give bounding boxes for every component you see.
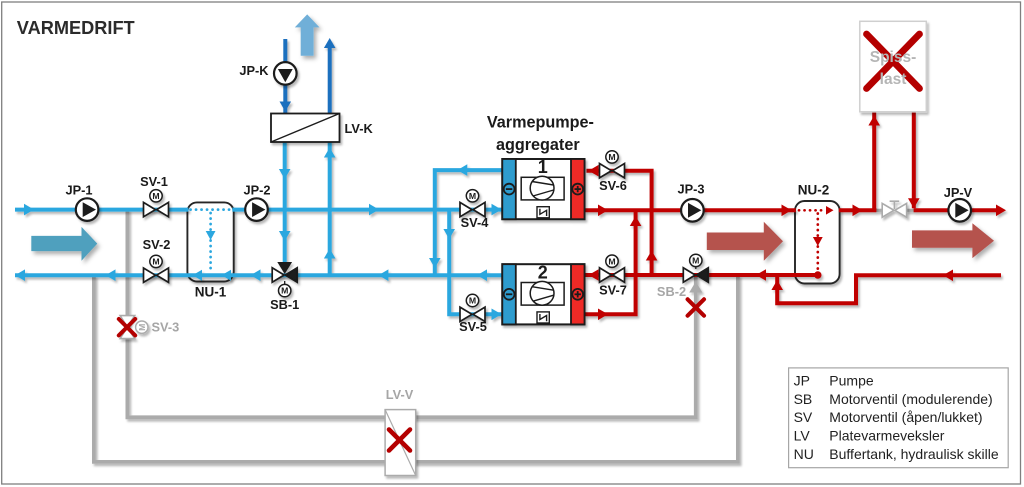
- buffer tank NU-2: [795, 201, 840, 284]
- svg-text:VARMEDRIFT: VARMEDRIFT: [17, 18, 135, 38]
- wire red supply NU-2 to riser junction: [839, 208, 877, 212]
- pump JP-V: [948, 199, 971, 222]
- svg-text:SV-3: SV-3: [152, 320, 180, 335]
- svg-text:2: 2: [538, 262, 548, 282]
- svg-text:LV-K: LV-K: [345, 121, 374, 136]
- valve SV-7: [600, 268, 612, 282]
- svg-text:M: M: [281, 286, 288, 296]
- svg-text:SB-1: SB-1: [270, 297, 299, 312]
- svg-text:M: M: [692, 256, 699, 266]
- wire bottom blue return: [15, 273, 503, 277]
- svg-text:M: M: [152, 257, 159, 267]
- wire grey stubs at manual valve: [876, 209, 883, 212]
- svg-text:NU-2: NU-2: [798, 182, 830, 197]
- wire unit 2 red supply riser: [584, 212, 635, 314]
- svg-text:Platevarmeveksler: Platevarmeveksler: [829, 427, 944, 443]
- valve SV-5: [460, 307, 472, 321]
- svg-text:M: M: [137, 324, 147, 331]
- svg-text:Motorventil (modulerende): Motorventil (modulerende): [829, 391, 992, 407]
- big red flow arrow middle: [707, 222, 783, 261]
- svg-text:M: M: [469, 296, 476, 306]
- svg-text:aggregater: aggregater: [496, 136, 580, 154]
- spiss-last box (inactive): [860, 21, 927, 112]
- X closed SB-2 bottom: [688, 299, 704, 315]
- svg-text:Motorventil (åpen/lukket): Motorventil (åpen/lukket): [829, 409, 982, 425]
- valve SB-1 (3-way): [277, 262, 292, 274]
- wire supply branch down to SV-5 / unit 2: [449, 210, 503, 315]
- big light blue flow arrow up: [295, 14, 320, 55]
- valve SV-2: [144, 268, 156, 282]
- wire red return from right edge with jog: [777, 273, 1001, 303]
- svg-text:Buffertank, hydraulisk skille: Buffertank, hydraulisk skille: [829, 446, 999, 462]
- X closed SV-3: [119, 319, 135, 335]
- buffer tank NU-1: [187, 202, 233, 281]
- grey arrow into SB-2 bottom port: [689, 282, 702, 293]
- X closed LV-V: [389, 430, 410, 451]
- legend box: [789, 368, 1009, 468]
- svg-text:SV: SV: [794, 409, 813, 425]
- svg-text:NU: NU: [794, 446, 814, 462]
- wire SV-6 return into unit 1: [586, 171, 651, 275]
- svg-text:JP-3: JP-3: [677, 181, 704, 196]
- wire LV-K right leg from bottom line: [328, 140, 332, 275]
- svg-text:JP: JP: [794, 373, 810, 389]
- svg-text:1: 1: [538, 157, 548, 177]
- svg-text:NU-1: NU-1: [195, 284, 227, 299]
- pump JP-2: [245, 198, 268, 221]
- NU-2 internal flow dots: [799, 210, 827, 270]
- svg-text:SB-2: SB-2: [657, 284, 686, 299]
- pump JP-3: [681, 199, 704, 222]
- svg-text:LV: LV: [794, 427, 811, 443]
- wire red supply after valve to right edge: [914, 208, 1001, 212]
- svg-text:SV-2: SV-2: [143, 237, 171, 252]
- pump JP-1: [76, 198, 99, 221]
- svg-text:SB: SB: [794, 391, 813, 407]
- valve SV-6: [600, 164, 612, 178]
- svg-text:M: M: [152, 191, 159, 201]
- svg-text:SV-4: SV-4: [461, 215, 490, 230]
- valve SB-2 (3-way): [683, 268, 695, 282]
- heat exchanger LV-K: [271, 114, 340, 143]
- blue arrows inside NU-1 on return line: [193, 270, 203, 281]
- svg-text:Varmepumpe-: Varmepumpe-: [487, 113, 594, 131]
- svg-text:M: M: [469, 191, 476, 201]
- wire spiss-last return down: [912, 113, 916, 209]
- valve SV-1: [144, 202, 156, 216]
- svg-text:Pumpe: Pumpe: [829, 373, 874, 389]
- heat pump unit 1: [502, 159, 584, 219]
- wire dark blue down leg with JP-K: [283, 39, 287, 114]
- wire dark blue up leg: [328, 47, 332, 114]
- wire unit 1 blue return to bottom line: [435, 170, 503, 275]
- svg-text:Spiss-: Spiss-: [870, 49, 917, 66]
- svg-text:JP-V: JP-V: [944, 185, 973, 200]
- svg-text:M: M: [608, 152, 615, 162]
- svg-text:SV-6: SV-6: [599, 178, 627, 193]
- svg-text:JP-2: JP-2: [243, 182, 270, 197]
- pump JP-K: [274, 62, 297, 85]
- wire top blue supply left segment: [15, 208, 189, 212]
- valve SV-3 (inactive, vertical): [120, 316, 135, 327]
- NU-1 internal flow dots: [191, 210, 232, 272]
- big red flow arrow right: [912, 223, 994, 258]
- manual valve (grey) near JP-V: [882, 203, 894, 217]
- wire red supply from unit 1 to NU-2: [584, 208, 795, 212]
- wire grey recovery loop outer: [94, 275, 738, 462]
- wire red return main (SB-2 to NU-2 bottom): [584, 273, 817, 277]
- wire LV-K left leg down to SB-1: [283, 140, 287, 264]
- svg-text:last: last: [880, 71, 907, 88]
- svg-text:JP-1: JP-1: [65, 182, 92, 197]
- heat pump unit 2: [502, 264, 584, 324]
- valve SV-4: [460, 202, 472, 216]
- svg-text:JP-K: JP-K: [239, 63, 269, 78]
- svg-text:SV-5: SV-5: [459, 319, 487, 334]
- svg-text:M: M: [608, 256, 615, 266]
- svg-text:SV-7: SV-7: [599, 282, 627, 297]
- wire spiss-last riser up: [872, 113, 876, 211]
- heat exchanger LV-V (inactive): [385, 410, 416, 476]
- wire grey recovery loop inner (through SV-3 and LV-V to SB-2): [127, 210, 695, 418]
- X closed spiss-last: [867, 34, 920, 89]
- wire top blue supply JP-2 to unit 1: [232, 208, 503, 212]
- svg-text:LV-V: LV-V: [386, 387, 414, 402]
- big teal flow arrow left: [31, 227, 97, 261]
- node NU-2 bottom connection: [814, 271, 821, 278]
- svg-text:SV-1: SV-1: [140, 174, 168, 189]
